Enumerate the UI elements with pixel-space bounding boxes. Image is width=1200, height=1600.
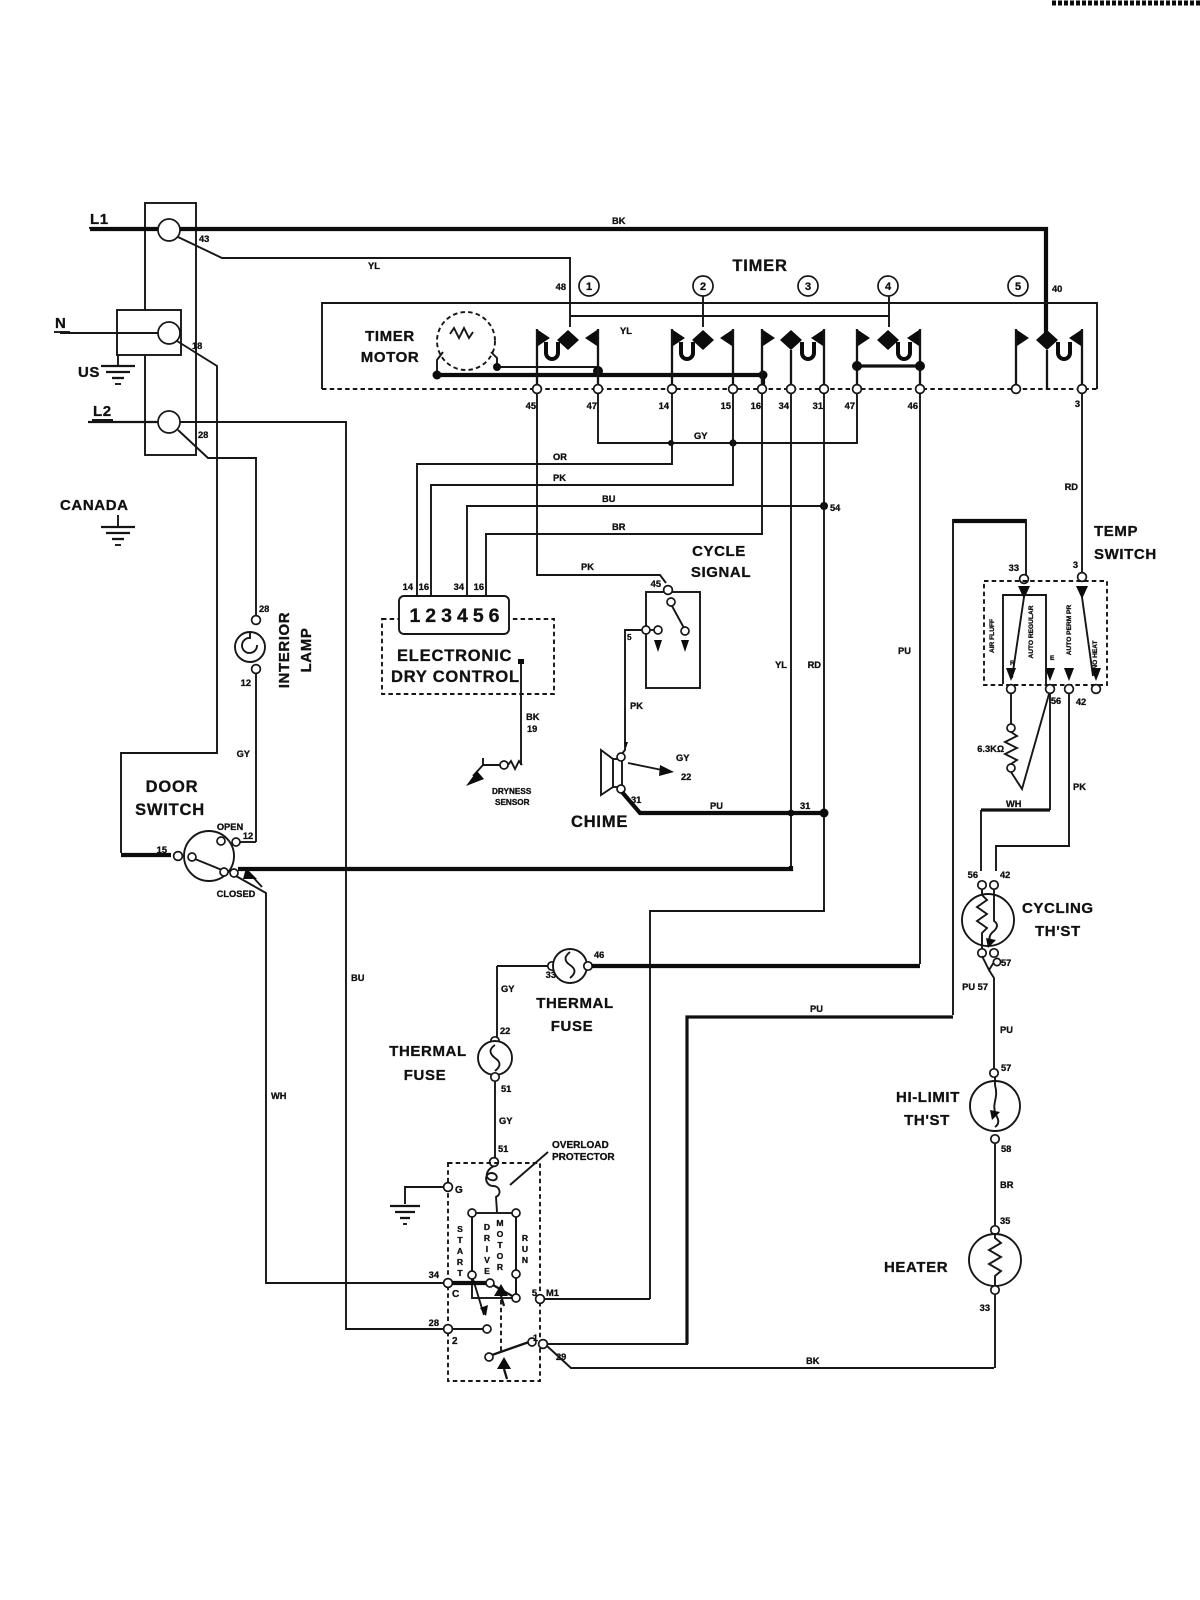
label BK	[806, 1356, 820, 1366]
svg-text:ELECTRONIC: ELECTRONIC	[397, 647, 512, 665]
wire G to ground	[405, 1187, 444, 1204]
svg-text:GY: GY	[694, 431, 708, 441]
heater	[969, 1226, 1021, 1294]
svg-text:28: 28	[259, 604, 269, 614]
label PU	[898, 646, 911, 656]
label DRIVE MOTOR stacked	[484, 1218, 504, 1276]
actuator arrow A	[494, 1284, 508, 1306]
svg-text:GY: GY	[499, 1116, 513, 1126]
hi-limit thermostat	[970, 1069, 1020, 1143]
timer terminal circles on dashed row	[533, 385, 1087, 394]
wire BK L1 to timer contact 5	[180, 229, 1046, 334]
svg-text:PK: PK	[1073, 782, 1086, 792]
wire BK 19 sensor lead	[518, 659, 524, 765]
label 31 right	[800, 801, 810, 811]
cycle signal switch	[627, 586, 689, 652]
svg-text:CLOSED: CLOSED	[217, 889, 256, 899]
label GY	[237, 749, 251, 759]
svg-text:FUSE: FUSE	[551, 1018, 593, 1035]
electronic dry control dashed box	[382, 619, 554, 694]
wire PK temp 42 to cycling 42	[996, 693, 1069, 871]
label PK cycle	[581, 562, 594, 572]
svg-text:THERMAL: THERMAL	[389, 1043, 467, 1060]
temp switch entry arrows	[1018, 586, 1088, 599]
svg-text:1: 1	[533, 1333, 538, 1343]
page edge tick top-right	[1052, 1, 1200, 6]
label BK	[612, 216, 626, 226]
svg-text:O: O	[497, 1251, 504, 1261]
svg-text:4: 4	[885, 281, 892, 293]
wire BR hi-limit to heater	[994, 1143, 996, 1226]
wire PK timer 15 to dry control 2	[431, 393, 733, 595]
svg-text:BK: BK	[526, 712, 540, 722]
label 57	[1001, 1063, 1011, 1073]
junction dot motor right	[493, 363, 501, 371]
wire M1 to RD riser	[544, 1298, 650, 1300]
timer cam number 3	[798, 276, 818, 296]
svg-text:SIGNAL: SIGNAL	[691, 564, 751, 581]
timer motor	[437, 312, 497, 372]
svg-text:A: A	[457, 1246, 463, 1256]
svg-text:HI-LIMIT: HI-LIMIT	[896, 1089, 960, 1106]
svg-text:AIR FLUFF: AIR FLUFF	[989, 619, 996, 653]
svg-text:42: 42	[1076, 697, 1086, 707]
svg-text:L1: L1	[90, 211, 109, 228]
thermal fuse 1	[497, 949, 920, 983]
svg-text:15: 15	[721, 401, 731, 411]
label 51	[501, 1084, 511, 1094]
svg-text:PK: PK	[581, 562, 594, 572]
svg-text:54: 54	[830, 503, 841, 513]
svg-text:TIMER: TIMER	[732, 257, 787, 275]
wire YL bus linking cams 1 2 4	[570, 296, 889, 327]
main switch blade	[493, 1285, 520, 1302]
svg-text:PK: PK	[553, 473, 566, 483]
svg-text:BR: BR	[612, 522, 626, 532]
timer label	[732, 257, 787, 275]
wire YL timer 34 to door switch	[790, 393, 792, 868]
wire timer motor bus (thick) to terminal 16	[437, 375, 763, 388]
svg-text:58: 58	[1001, 1144, 1011, 1154]
timer contact 4	[852, 329, 925, 388]
svg-text:29: 29	[556, 1352, 566, 1362]
wire PU motor 1 to temp switch	[687, 1017, 953, 1344]
temp switch box	[984, 581, 1107, 685]
svg-text:TH'ST: TH'ST	[904, 1112, 950, 1129]
svg-text:16: 16	[751, 401, 761, 411]
motor inner box	[468, 1209, 520, 1298]
label 46 fuse1	[594, 950, 604, 960]
temp switch terminals top	[1020, 573, 1087, 584]
svg-text:M1: M1	[546, 1288, 559, 1298]
svg-text:O: O	[497, 1229, 504, 1239]
label GY	[499, 1116, 513, 1126]
overload protector label	[510, 1140, 615, 1185]
svg-text:R: R	[457, 1257, 464, 1267]
timer cam number 2	[693, 276, 713, 296]
svg-text:42: 42	[1000, 870, 1010, 880]
wire GY fuse2 to motor	[494, 1081, 496, 1158]
label 45	[651, 579, 661, 589]
label BR	[1000, 1180, 1014, 1190]
label 43	[199, 234, 209, 244]
temp switch label	[1094, 523, 1157, 563]
actuator arrow A bottom	[497, 1357, 511, 1379]
svg-text:45: 45	[651, 579, 661, 589]
svg-text:46: 46	[908, 401, 918, 411]
timer box	[322, 303, 1097, 389]
svg-text:5: 5	[627, 633, 632, 642]
label 58	[1001, 1144, 1011, 1154]
label 48 (YL entry)	[556, 282, 566, 292]
svg-text:AUTO PERM PR: AUTO PERM PR	[1066, 605, 1073, 656]
wire YL L1 to timer contact 1	[178, 237, 570, 327]
svg-text:28: 28	[429, 1318, 439, 1328]
label CLOSED	[217, 889, 256, 899]
label 12 lamp bottom	[241, 678, 251, 688]
label 29	[556, 1352, 566, 1362]
svg-text:R: R	[1010, 660, 1015, 667]
label PK chime	[630, 701, 643, 711]
wire PK timer 45 to cycle signal	[537, 393, 666, 583]
wire cycling V to hi-limit	[982, 956, 1011, 1069]
junction dot at 763	[759, 371, 768, 380]
timer contact 1	[537, 329, 598, 388]
label 3	[1073, 560, 1078, 570]
dryness sensor	[466, 758, 532, 807]
svg-text:22: 22	[681, 772, 691, 782]
wire BU L2 to motor terminal 2 (top corner)	[180, 422, 346, 425]
cycling thermostat	[962, 881, 1014, 957]
svg-text:C: C	[452, 1289, 459, 1300]
svg-text:SENSOR: SENSOR	[495, 798, 530, 807]
door switch	[174, 831, 256, 881]
svg-text:U: U	[522, 1244, 528, 1254]
terminal block N box	[117, 310, 181, 355]
label PK	[553, 473, 566, 483]
label 28 lamp top	[259, 604, 269, 614]
svg-text:DOOR: DOOR	[146, 778, 199, 796]
label 40 (BK entry)	[1052, 284, 1062, 294]
timer contact 5	[1016, 329, 1082, 388]
svg-text:51: 51	[498, 1144, 508, 1154]
label BR	[612, 522, 626, 532]
label 18	[192, 341, 202, 351]
wire door switch closed to YL (thick)	[238, 866, 791, 869]
wire GY fuse1 to fuse2	[496, 966, 498, 1037]
wire L2 to interior lamp (diagonal)	[178, 430, 256, 462]
wire BU timer 31 junction 54 to dry control 3	[467, 506, 824, 595]
svg-text:57: 57	[1001, 1063, 1011, 1073]
svg-text:34: 34	[779, 401, 790, 411]
terminal N	[158, 322, 180, 344]
label 15	[157, 845, 167, 855]
svg-text:N: N	[55, 315, 66, 332]
wire timer motor to contact1 (thin)	[497, 366, 598, 368]
svg-text:1: 1	[586, 281, 592, 293]
svg-text:R: R	[484, 1233, 491, 1243]
svg-text:34: 34	[454, 582, 465, 592]
timer terminal labels	[526, 399, 1080, 411]
labels 56 42 cycling	[968, 870, 1011, 880]
wire BU L2 to motor 2	[346, 424, 443, 1329]
svg-text:PK: PK	[630, 701, 643, 711]
timer cam number 5	[1008, 276, 1028, 296]
svg-text:18: 18	[192, 341, 202, 351]
terminal C 34	[429, 1270, 494, 1300]
svg-text:CYCLING: CYCLING	[1022, 900, 1094, 917]
wire GY timer 47 to 47	[598, 393, 857, 443]
svg-text:BK: BK	[612, 216, 626, 226]
svg-text:CANADA: CANADA	[60, 497, 129, 514]
cycling thermostat label	[1022, 900, 1094, 940]
door switch actuator arrow	[243, 868, 262, 887]
svg-text:2: 2	[700, 281, 706, 293]
svg-text:3: 3	[805, 281, 811, 293]
svg-text:123456: 123456	[409, 605, 504, 627]
hi-limit label	[896, 1089, 960, 1129]
ground US	[78, 355, 135, 384]
label PU	[710, 801, 723, 811]
svg-text:GY: GY	[676, 753, 690, 763]
bottom switch blade	[485, 1338, 536, 1361]
svg-text:12: 12	[243, 831, 253, 841]
svg-text:L2: L2	[93, 403, 112, 420]
svg-text:46: 46	[594, 950, 604, 960]
timer cam number 4	[878, 276, 898, 296]
svg-text:PROTECTOR: PROTECTOR	[552, 1152, 615, 1163]
svg-text:14: 14	[403, 582, 414, 592]
svg-text:BK: BK	[806, 1356, 820, 1366]
actuator dashed link	[500, 1300, 502, 1352]
svg-text:WH: WH	[271, 1091, 287, 1101]
svg-text:40: 40	[1052, 284, 1062, 294]
svg-text:35: 35	[1000, 1216, 1010, 1226]
wire door switch stub	[121, 853, 171, 857]
svg-text:16: 16	[474, 582, 484, 592]
svg-text:43: 43	[199, 234, 209, 244]
svg-text:GY: GY	[501, 984, 515, 994]
svg-text:BR: BR	[1000, 1180, 1014, 1190]
svg-text:CHIME: CHIME	[571, 813, 628, 831]
wire cycle signal to chime	[621, 630, 642, 755]
motor terminal top	[490, 1158, 499, 1167]
svg-text:12: 12	[241, 678, 251, 688]
svg-text:FUSE: FUSE	[404, 1067, 446, 1084]
label PU	[1000, 1025, 1013, 1035]
svg-text:DRYNESS: DRYNESS	[492, 787, 532, 796]
svg-text:31: 31	[800, 801, 810, 811]
svg-text:PU: PU	[1000, 1025, 1013, 1035]
svg-text:33: 33	[1009, 563, 1019, 573]
wire PU bridge to temp switch 33	[953, 519, 1026, 1015]
label 22	[500, 1026, 510, 1036]
dry control terminal strip 123456	[399, 596, 509, 634]
svg-text:OR: OR	[553, 452, 567, 462]
thermal fuse 2 label	[389, 1043, 467, 1084]
svg-text:56: 56	[1051, 696, 1061, 706]
wire OR timer 14 to dry control 1	[417, 393, 672, 595]
label 33	[1009, 563, 1019, 573]
node N	[54, 315, 70, 332]
label 12	[243, 831, 253, 841]
svg-text:E: E	[484, 1266, 490, 1276]
junction 54	[820, 502, 841, 513]
label YL	[368, 261, 380, 271]
svg-text:V: V	[484, 1255, 490, 1265]
svg-text:16: 16	[419, 582, 429, 592]
svg-text:RD: RD	[1065, 482, 1079, 492]
temp switch blades	[1012, 597, 1093, 678]
svg-text:34: 34	[429, 1270, 440, 1280]
label RUN stacked	[522, 1233, 529, 1265]
svg-text:OVERLOAD: OVERLOAD	[552, 1140, 609, 1151]
svg-text:AUTO REGULAR: AUTO REGULAR	[1028, 605, 1035, 658]
wire RD riser to M1	[650, 908, 824, 1299]
door switch label	[135, 778, 205, 819]
interior lamp label (rotated)	[276, 612, 315, 688]
run winding line	[512, 1217, 520, 1294]
svg-text:R: R	[522, 1233, 529, 1243]
wire GY lamp to door switch open	[255, 673, 257, 842]
svg-text:M: M	[496, 1218, 503, 1228]
wire RD timer 31 down	[823, 393, 825, 911]
wire N to door switch (down left column)	[121, 341, 217, 853]
svg-text:PU 57: PU 57	[962, 982, 988, 992]
wire RD timer 3 to temp switch	[1081, 393, 1083, 573]
svg-text:2: 2	[452, 1336, 458, 1347]
svg-text:YL: YL	[775, 660, 787, 670]
node L1	[89, 211, 110, 228]
temp switch bottom terminals	[1007, 685, 1101, 694]
svg-text:T: T	[457, 1268, 463, 1278]
terminal G	[444, 1183, 463, 1196]
svg-text:T: T	[497, 1240, 503, 1250]
label GY	[694, 431, 708, 441]
label 35	[1000, 1216, 1010, 1226]
wire heater bottom to BK	[994, 1294, 996, 1368]
svg-text:YL: YL	[368, 261, 380, 271]
svg-text:US: US	[78, 364, 100, 381]
svg-text:PU: PU	[710, 801, 723, 811]
svg-text:GY: GY	[237, 749, 251, 759]
timer motor label	[361, 328, 420, 366]
svg-text:BU: BU	[351, 973, 365, 983]
svg-text:TIMER: TIMER	[365, 328, 415, 345]
timer contact 2	[672, 329, 733, 388]
svg-text:RD: RD	[808, 660, 822, 670]
terminal 1	[533, 1333, 548, 1348]
label 31	[631, 795, 641, 805]
svg-text:MOTOR: MOTOR	[361, 349, 420, 366]
svg-text:D: D	[484, 1222, 490, 1232]
wire L2 stub	[88, 421, 158, 423]
junction dot GY at 15	[729, 439, 736, 446]
svg-text:LAMP: LAMP	[298, 628, 315, 673]
svg-text:28: 28	[198, 430, 208, 440]
label OPEN	[217, 822, 244, 832]
svg-text:3: 3	[1073, 560, 1078, 570]
svg-text:SWITCH: SWITCH	[1094, 546, 1157, 563]
label RD	[1065, 482, 1079, 492]
wire resistor V to 56	[1011, 694, 1049, 789]
label GY	[501, 984, 515, 994]
wire 29 BK to heater	[547, 1346, 994, 1368]
temp switch inner box	[1003, 595, 1046, 684]
label BU	[351, 973, 365, 983]
junction dot motor left	[433, 371, 442, 380]
svg-text:T: T	[457, 1235, 463, 1245]
svg-text:NO HEAT: NO HEAT	[1092, 640, 1099, 669]
svg-text:BU: BU	[602, 494, 616, 504]
svg-text:14: 14	[659, 401, 670, 411]
junction dot contact1 right line	[593, 366, 603, 376]
svg-text:48: 48	[556, 282, 566, 292]
svg-text:51: 51	[501, 1084, 511, 1094]
overload protector squiggle	[486, 1166, 499, 1212]
wire terminal 1 to PU riser	[547, 1341, 687, 1344]
svg-text:57: 57	[1001, 958, 1011, 968]
label START stacked	[457, 1224, 464, 1278]
label PU 57	[962, 982, 988, 992]
label YL	[775, 660, 787, 670]
interior lamp	[235, 462, 265, 673]
terminal 2 28	[429, 1318, 491, 1347]
svg-text:I: I	[486, 1244, 488, 1254]
svg-text:SWITCH: SWITCH	[135, 801, 205, 819]
svg-text:PU: PU	[810, 1004, 823, 1014]
svg-text:47: 47	[587, 401, 597, 411]
label OR	[553, 452, 567, 462]
svg-text:R: R	[497, 1262, 504, 1272]
label 28	[198, 430, 208, 440]
wire WH door switch closed to motor C	[236, 876, 443, 1283]
temp switch bottom arrows	[1006, 668, 1101, 681]
junction blob at YL crossing	[788, 810, 795, 817]
svg-text:G: G	[455, 1185, 463, 1196]
label WH	[1006, 799, 1022, 809]
svg-text:33: 33	[980, 1303, 990, 1313]
chime	[601, 742, 628, 795]
svg-text:YL: YL	[620, 326, 632, 336]
label WH	[271, 1091, 287, 1101]
svg-text:TH'ST: TH'ST	[1035, 923, 1081, 940]
labels 56 42 below temp switch	[1051, 696, 1086, 707]
temp switch rotated position labels	[989, 605, 1099, 670]
svg-text:E: E	[1050, 655, 1055, 662]
svg-text:47: 47	[845, 401, 855, 411]
label PK	[1073, 782, 1086, 792]
dry control terminal labels 14 16 34 16	[403, 582, 484, 592]
label 51	[498, 1144, 508, 1154]
svg-text:56: 56	[968, 870, 978, 880]
cycle signal box	[646, 592, 700, 688]
svg-text:TEMP: TEMP	[1094, 523, 1138, 540]
label YL inside timer	[620, 326, 632, 336]
start winding line	[468, 1217, 488, 1316]
junction dot GY at 14	[668, 440, 674, 446]
thermal fuse 1 label	[536, 995, 614, 1035]
cycle signal label	[691, 543, 751, 581]
wire timer 46 down to thermal fuse	[919, 393, 921, 964]
label BK 19	[526, 712, 540, 734]
terminal 5 M1	[532, 1288, 559, 1303]
svg-text:WH: WH	[1006, 799, 1022, 809]
terminal block (power cord)	[145, 203, 196, 455]
heater label	[884, 1259, 948, 1276]
node L2	[92, 403, 113, 420]
svg-text:5: 5	[1015, 281, 1021, 293]
